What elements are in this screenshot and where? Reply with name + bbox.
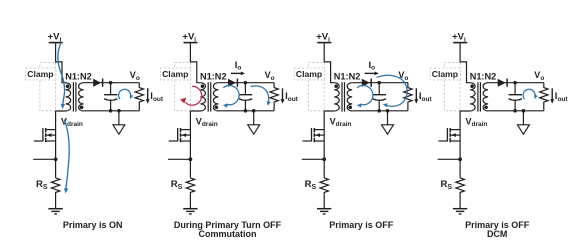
svg-text:Vo: Vo (130, 70, 140, 82)
transformer core (panel 1) (73, 82, 76, 111)
svg-text:Primary is OFF: Primary is OFF (329, 220, 394, 230)
svg-text:+Vi: +Vi (48, 32, 62, 44)
supply rail bar (panel 4) (453, 42, 467, 44)
primary current arrow blue lower (panel 1) (64, 120, 69, 194)
svg-text:Io: Io (369, 60, 376, 72)
svg-text:RS: RS (171, 179, 183, 191)
current sense line (panel 3) (302, 158, 324, 160)
output current loop arrow blue (panel 1) (119, 89, 134, 99)
output bottom rail wire (panel 4) (488, 110, 544, 112)
transformer primary winding N1 (panel 1) (66, 83, 71, 111)
load resistor (panel 3) (404, 83, 412, 111)
diode D (panel 4) (498, 79, 507, 87)
output ground (panel 3) (382, 111, 394, 134)
wire: +Vi rail to primary top (panel 4) (460, 43, 470, 82)
load resistor (panel 4) (540, 83, 548, 111)
svg-text:Commutation: Commutation (199, 229, 257, 239)
Io direction arrow (panel 2) (231, 72, 245, 76)
primary current arrow blue upper (panel 1) (58, 43, 65, 110)
clamp label text (panel 2) (162, 69, 188, 79)
label Vdrain (panel 2) (196, 116, 218, 128)
transformer primary winding N1 (panel 3) (334, 83, 339, 111)
output bottom rail wire (panel 2) (218, 110, 274, 112)
svg-text:Io: Io (235, 60, 242, 72)
supply rail bar (panel 1) (49, 42, 63, 44)
cap-to-load current arc blue (panel 2) (251, 86, 271, 106)
label Io (panel 3) (369, 60, 376, 72)
output bottom rail wire (panel 3) (352, 110, 408, 112)
transformer secondary dot (panel 1) (80, 106, 84, 110)
MOSFET Q (panel 1) (34, 128, 56, 142)
label Rs (panel 1) (36, 179, 48, 191)
clamp label text (panel 4) (432, 69, 458, 79)
label Vo (panel 4) (534, 70, 544, 82)
junction dot ground-tap (panel 4) (522, 109, 526, 113)
power ground (panel 3) (317, 209, 331, 214)
label Iout (panel 4) (555, 91, 569, 103)
label Vo (panel 3) (398, 70, 408, 82)
svg-text:Clamp: Clamp (432, 69, 458, 79)
transformer secondary winding N2 (panel 2) (213, 83, 218, 111)
caption line 1 (panel 4) (465, 220, 530, 230)
svg-text:Vdrain: Vdrain (61, 116, 83, 128)
svg-text:RS: RS (441, 179, 453, 191)
svg-text:N1:N2: N1:N2 (200, 71, 227, 81)
label Iout (panel 2) (285, 91, 299, 103)
label Vdrain (panel 1) (61, 116, 83, 128)
svg-text:+Vi: +Vi (452, 32, 466, 44)
wire: +Vi rail to primary top (panel 3) (324, 43, 334, 82)
transformer primary winding N1 (panel 4) (470, 83, 475, 111)
output top rail wire (panel 2) (218, 82, 274, 84)
node dot at diode cathode (panel 1) (109, 81, 113, 85)
svg-text:RS: RS (305, 179, 317, 191)
clamp label text (panel 3) (296, 69, 322, 79)
wire: primary bottom to Rs (panel 3) (324, 111, 334, 178)
output ground (panel 1) (113, 111, 125, 134)
clamp label box (panel 2) (160, 68, 190, 80)
junction dot cap-bottom (panel 4) (513, 109, 517, 113)
secondary current loop arrow blue (panel 2) (223, 86, 239, 108)
Io direction arrow (panel 3) (365, 72, 379, 76)
wire: primary bottom to Rs (panel 4) (460, 111, 470, 178)
output capacitor C (panel 3) (373, 83, 386, 111)
output capacitor C (panel 2) (239, 83, 252, 111)
clamp block dashed box (panel 1) (40, 62, 56, 110)
power ground (panel 4) (453, 209, 467, 214)
label Rs (panel 2) (171, 179, 183, 191)
svg-text:Vdrain: Vdrain (330, 116, 352, 128)
sense resistor Rs (panel 1) (51, 178, 59, 209)
transformer secondary dot (panel 4) (484, 106, 488, 110)
svg-text:Vdrain: Vdrain (196, 116, 218, 128)
clamp current loop arrow red (panel 2) (180, 86, 202, 105)
label N1:N2 (panel 2) (200, 71, 227, 81)
svg-text:Iout: Iout (555, 91, 569, 103)
svg-text:+Vi: +Vi (316, 32, 330, 44)
junction dot ground-tap (panel 2) (252, 109, 256, 113)
caption (panel 3) (329, 220, 394, 230)
svg-text:N1:N2: N1:N2 (470, 71, 497, 81)
junction dot ground-tap (panel 3) (386, 109, 390, 113)
label Rs (panel 4) (441, 179, 453, 191)
junction dot sense (panel 3) (322, 157, 326, 161)
output capacitor C (panel 1) (104, 83, 117, 111)
load current loop arrow blue (panel 3) (377, 75, 408, 107)
output top rail wire (panel 3) (352, 82, 408, 84)
load resistor (panel 1) (135, 83, 143, 111)
label N1:N2 (panel 4) (470, 71, 497, 81)
label Io (panel 2) (235, 60, 242, 72)
supply rail bar (panel 2) (184, 42, 198, 44)
svg-text:RS: RS (36, 179, 48, 191)
label Iout (panel 1) (150, 91, 164, 103)
clamp block dashed box (panel 3) (309, 62, 325, 110)
wire: primary bottom to Rs (panel 2) (190, 111, 200, 178)
wire: +Vi rail to primary top (panel 1) (56, 43, 66, 82)
label +Vi (panel 2) (182, 32, 196, 44)
label +Vi (panel 4) (452, 32, 466, 44)
svg-text:Primary is ON: Primary is ON (63, 220, 123, 230)
caption line 1 (panel 2) (174, 220, 282, 230)
clamp label box (panel 4) (430, 68, 460, 80)
svg-text:Vo: Vo (265, 70, 275, 82)
label Vdrain (panel 3) (330, 116, 352, 128)
Iout arrow (panel 2) (281, 88, 285, 103)
label +Vi (panel 3) (316, 32, 330, 44)
diode D (panel 1) (93, 79, 102, 87)
junction dot sense (panel 1) (54, 157, 58, 161)
svg-text:N1:N2: N1:N2 (65, 71, 92, 81)
junction dot cap-bottom (panel 1) (109, 109, 113, 113)
transformer secondary dot (panel 3) (348, 106, 352, 110)
label Vo (panel 2) (265, 70, 275, 82)
node dot at diode cathode (panel 2) (244, 81, 248, 85)
label Rs (panel 3) (305, 179, 317, 191)
svg-text:Iout: Iout (285, 91, 299, 103)
power ground (panel 1) (48, 209, 62, 214)
label Vo (panel 1) (130, 70, 140, 82)
label +Vi (panel 1) (48, 32, 62, 44)
Iout arrow (panel 4) (550, 88, 554, 103)
svg-text:N1:N2: N1:N2 (334, 71, 361, 81)
junction dot sense (panel 4) (458, 157, 462, 161)
svg-text:Vdrain: Vdrain (466, 116, 488, 128)
current sense line (panel 2) (168, 158, 190, 160)
label Iout (panel 3) (419, 91, 433, 103)
Iout arrow (panel 1) (146, 88, 150, 103)
Iout arrow (panel 3) (414, 88, 418, 103)
transformer primary dot (panel 2) (201, 84, 205, 88)
diode D (panel 2) (228, 79, 237, 87)
MOSFET Q (panel 2) (169, 128, 191, 142)
output capacitor C (panel 4) (509, 83, 522, 111)
junction dot sense (panel 2) (189, 157, 193, 161)
transformer core (panel 4) (478, 82, 481, 111)
svg-text:Vo: Vo (534, 70, 544, 82)
MOSFET Q (panel 4) (438, 128, 460, 142)
junction dot cap-bottom (panel 3) (377, 109, 381, 113)
transformer primary dot (panel 3) (334, 84, 338, 88)
caption (panel 1) (63, 220, 123, 230)
transformer primary dot (panel 1) (66, 84, 70, 88)
junction dot ground-tap (panel 1) (117, 109, 121, 113)
diode D (panel 3) (362, 79, 371, 87)
output ground (panel 4) (517, 111, 529, 134)
label Vdrain (panel 4) (466, 116, 488, 128)
current sense line (panel 1) (33, 158, 55, 160)
transformer core (panel 2) (208, 82, 211, 111)
clamp label text (panel 1) (27, 69, 53, 79)
power ground (panel 2) (183, 209, 197, 214)
transformer secondary winding N2 (panel 3) (347, 83, 352, 111)
supply rail bar (panel 3) (317, 42, 331, 44)
sense resistor Rs (panel 3) (320, 178, 328, 209)
svg-text:+Vi: +Vi (182, 32, 196, 44)
caption line 2 (panel 4) (487, 229, 508, 239)
output top rail wire (panel 1) (84, 82, 140, 84)
sense resistor Rs (panel 2) (186, 178, 194, 209)
transformer secondary winding N2 (panel 1) (79, 83, 84, 111)
current sense line (panel 4) (438, 158, 460, 160)
sense resistor Rs (panel 4) (456, 178, 464, 209)
transformer secondary dot (panel 2) (215, 106, 219, 110)
transformer core (panel 3) (342, 82, 345, 111)
secondary current loop arrow blue (panel 3) (357, 86, 373, 108)
MOSFET Q (panel 3) (303, 128, 325, 142)
clamp block dashed box (panel 2) (175, 62, 191, 110)
label N1:N2 (panel 3) (334, 71, 361, 81)
output current loop arrow blue (panel 4) (523, 89, 538, 99)
clamp block dashed box (panel 4) (444, 62, 460, 110)
caption line 2 (panel 2) (199, 229, 257, 239)
transformer secondary winding N2 (panel 4) (483, 83, 488, 111)
svg-text:Iout: Iout (419, 91, 433, 103)
node dot at diode cathode (panel 4) (513, 81, 517, 85)
transformer primary winding N1 (panel 2) (200, 83, 205, 111)
wire: +Vi rail to primary top (panel 2) (190, 43, 200, 82)
label N1:N2 (panel 1) (65, 71, 92, 81)
svg-text:Clamp: Clamp (162, 69, 188, 79)
output top rail wire (panel 4) (488, 82, 544, 84)
transformer primary dot (panel 4) (470, 84, 474, 88)
svg-text:Iout: Iout (150, 91, 164, 103)
output bottom rail wire (panel 1) (84, 110, 140, 112)
output ground (panel 2) (248, 111, 260, 134)
load resistor (panel 2) (270, 83, 278, 111)
svg-text:Clamp: Clamp (296, 69, 322, 79)
svg-text:DCM: DCM (487, 229, 508, 239)
junction dot cap-bottom (panel 2) (244, 109, 248, 113)
wire: primary bottom to Rs (panel 1) (56, 111, 66, 178)
clamp label box (panel 1) (26, 68, 56, 80)
node dot at diode cathode (panel 3) (377, 81, 381, 85)
clamp label box (panel 3) (294, 68, 324, 80)
svg-text:Clamp: Clamp (27, 69, 53, 79)
